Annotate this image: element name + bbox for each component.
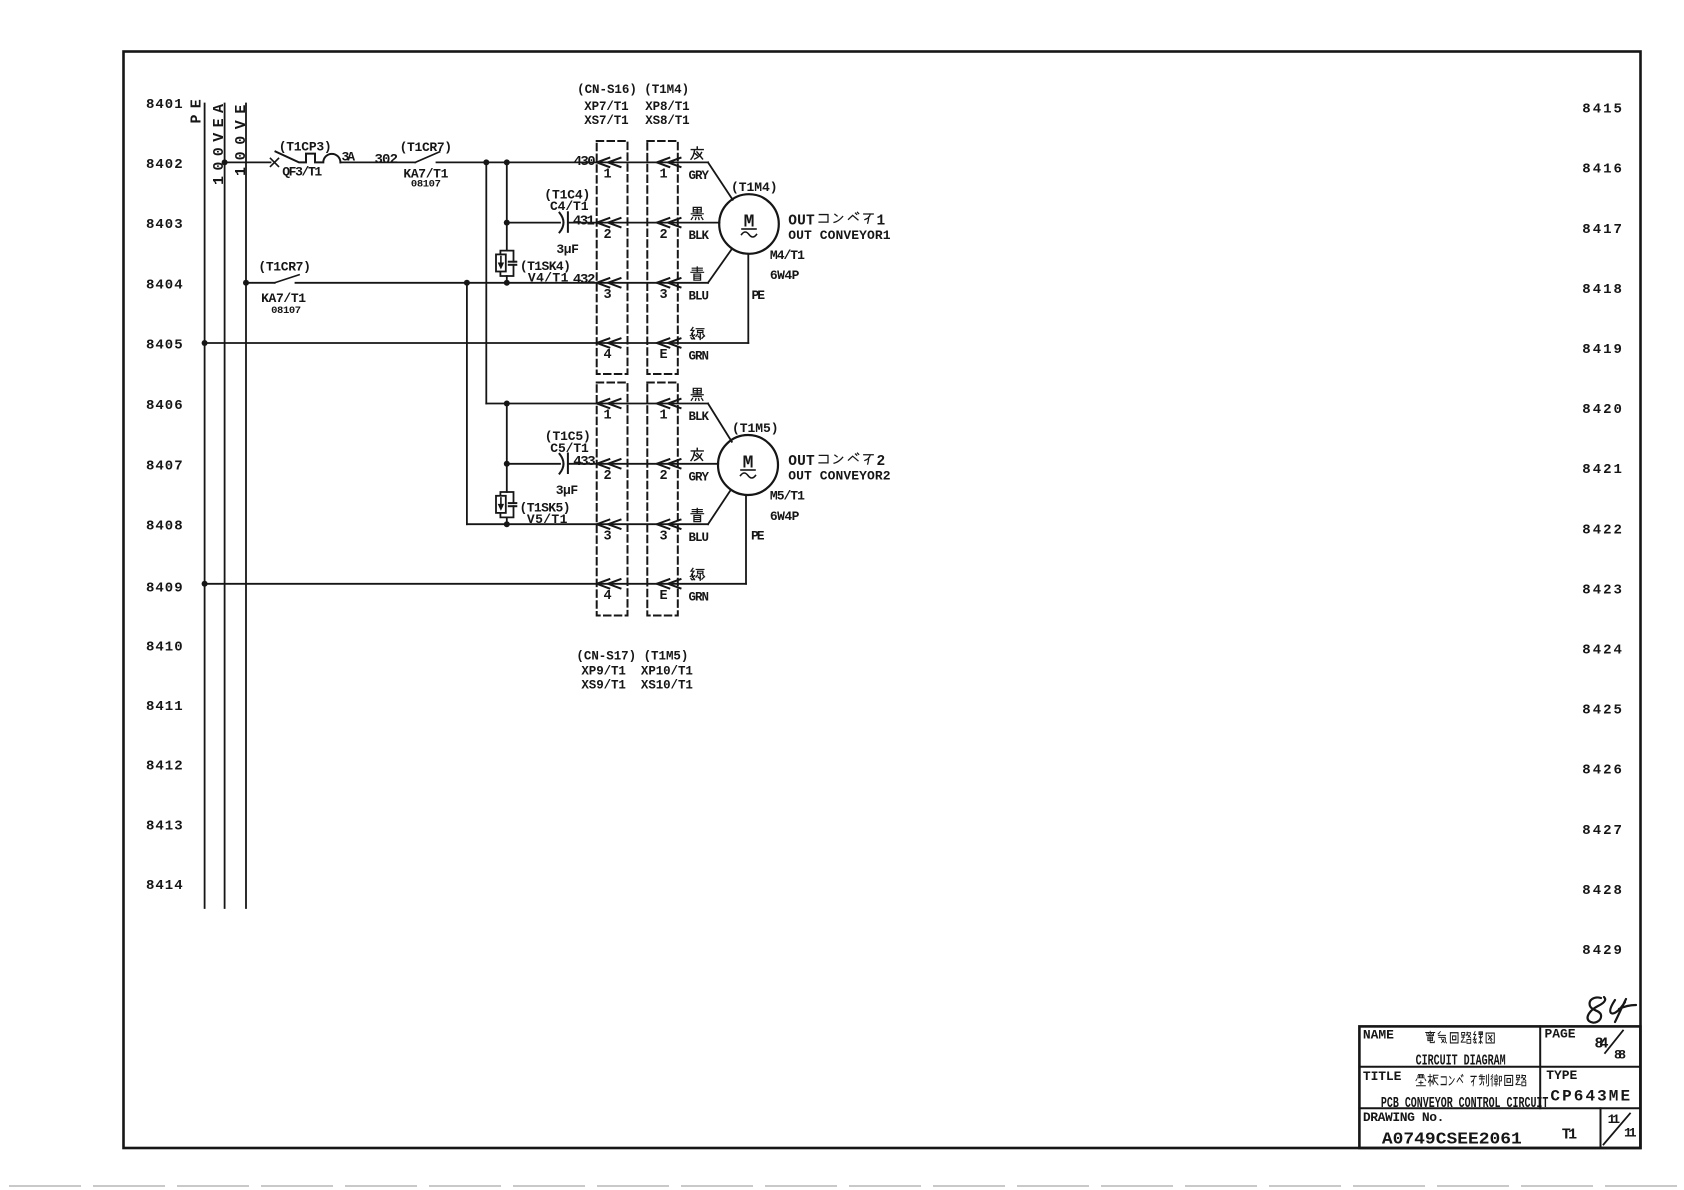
svg-text:GRN: GRN — [689, 590, 710, 604]
wire PE riser to motor M5 — [745, 495, 747, 584]
component labels row 8402 — [279, 140, 452, 191]
svg-text:8406: 8406 — [146, 398, 184, 414]
pin arrows row 8406 — [597, 399, 681, 408]
wire color labels CN-S16 — [689, 147, 710, 364]
svg-text:100VE: 100VE — [233, 98, 250, 176]
wire 302 — [340, 161, 415, 163]
junction 8404 on 100VE — [243, 280, 249, 286]
svg-text:3µF: 3µF — [556, 242, 579, 257]
connector CN-S16 socket box XP8/XS8 — [647, 141, 678, 374]
svg-text:A0749CSEE2061: A0749CSEE2061 — [1382, 1129, 1522, 1148]
svg-text:1: 1 — [877, 213, 886, 229]
node x-mark at breaker input — [271, 158, 279, 166]
svg-text:8409: 8409 — [146, 581, 184, 597]
svg-text:CIRCUIT DIAGRAM: CIRCUIT DIAGRAM — [1416, 1052, 1506, 1069]
connector pin numbers CN-S16 — [603, 168, 667, 364]
pin arrows row 8408 — [597, 520, 681, 529]
wire 431 to connector — [568, 222, 720, 224]
svg-text:C4/T1: C4/T1 — [550, 199, 589, 214]
title block texts — [1363, 1027, 1637, 1149]
relay contact KA7/T1 (T1CR7) row 8404 — [275, 275, 299, 283]
svg-text:432: 432 — [573, 272, 596, 288]
svg-text:XS7/T1: XS7/T1 — [584, 114, 629, 128]
svg-text:XS10/T1: XS10/T1 — [641, 678, 693, 692]
junction 8402 on 100VEA — [222, 159, 228, 165]
svg-text:(T1CR7): (T1CR7) — [400, 140, 453, 155]
motor M5 name OUTコンベア2 — [788, 453, 890, 483]
junction 8405 on PE — [202, 340, 208, 346]
capacitor C5 labels — [545, 429, 596, 498]
wire 432 row 8404 to connector — [296, 282, 709, 284]
motor M5/T1 (T1M5) OUT CONVEYOR2 — [718, 421, 805, 544]
svg-text:GRY: GRY — [689, 169, 710, 183]
svg-text:1: 1 — [659, 409, 667, 424]
svg-text:KA7/T1: KA7/T1 — [261, 291, 306, 306]
wire SK4 to row 8404 — [506, 276, 508, 283]
svg-text:BLK: BLK — [689, 410, 710, 424]
capacitor C4 labels — [544, 188, 595, 257]
svg-text:8429: 8429 — [1582, 943, 1624, 959]
wire row 8404 from 100VE to contact — [246, 282, 275, 284]
svg-text:8414: 8414 — [146, 878, 184, 894]
svg-text:XP7/T1: XP7/T1 — [584, 100, 629, 114]
svg-text:8410: 8410 — [146, 639, 184, 655]
svg-text:8411: 8411 — [146, 699, 184, 715]
junction 8404/branch467 — [464, 280, 470, 286]
svg-text:431: 431 — [573, 213, 595, 229]
svg-text:8405: 8405 — [146, 338, 184, 354]
junction 8403 — [504, 220, 510, 226]
svg-text:8408: 8408 — [146, 519, 184, 535]
svg-text:88: 88 — [1614, 1047, 1626, 1062]
svg-text:84: 84 — [1595, 1035, 1609, 1052]
svg-text:8425: 8425 — [1582, 703, 1624, 719]
svg-text:100VEA: 100VEA — [211, 99, 228, 185]
svg-text:(T1CR7): (T1CR7) — [258, 259, 311, 274]
svg-text:XP8/T1: XP8/T1 — [645, 100, 690, 114]
svg-text:XP9/T1: XP9/T1 — [581, 664, 626, 678]
pin arrows row 8404 — [597, 278, 681, 287]
motor M4 name OUTコンベア1 — [788, 212, 890, 243]
svg-text:(CN-S16) (T1M4): (CN-S16) (T1M4) — [577, 83, 689, 97]
vertical wire 8402 to 8403/SK4 — [506, 162, 508, 250]
svg-text:8407: 8407 — [146, 458, 184, 474]
svg-text:8404: 8404 — [146, 277, 184, 293]
vertical wire 8406 to 8407/SK5 — [506, 404, 508, 493]
pin arrows row 8402 — [597, 158, 681, 167]
svg-text:M4/T1: M4/T1 — [770, 248, 805, 263]
wire row 8408 to connector — [467, 523, 708, 525]
svg-text:8403: 8403 — [146, 217, 184, 233]
svg-text:8422: 8422 — [1582, 522, 1624, 538]
surge killer SK4 labels — [520, 259, 596, 288]
line number labels right column — [1582, 102, 1624, 959]
wire row 8406 to connector — [486, 403, 708, 405]
svg-text:302: 302 — [375, 152, 399, 168]
svg-text:8415: 8415 — [1582, 102, 1624, 118]
svg-text:CP643ME: CP643ME — [1550, 1088, 1630, 1106]
svg-text:8419: 8419 — [1582, 342, 1624, 358]
wire PE riser to motor M4 — [747, 254, 749, 343]
svg-text:2: 2 — [603, 469, 611, 484]
surge killer SK5 labels — [520, 501, 571, 527]
svg-text:8402: 8402 — [146, 157, 184, 173]
wire row 8402 from 100VEA to breaker — [225, 161, 271, 163]
junction 8404/SK4 — [504, 280, 510, 286]
wire row 8409 PE to connector — [205, 583, 746, 585]
svg-text:TYPE: TYPE — [1546, 1068, 1577, 1083]
wire 433 to connector — [568, 463, 718, 465]
svg-text:E: E — [659, 348, 667, 363]
svg-text:BLU: BLU — [689, 531, 710, 545]
wire 430 row 8402 to connector — [437, 161, 709, 163]
svg-text:8421: 8421 — [1582, 462, 1624, 478]
svg-text:8420: 8420 — [1582, 402, 1624, 418]
svg-text:(T1CP3): (T1CP3) — [279, 140, 332, 155]
vertical branch wire 8404 to 8408 — [466, 283, 468, 524]
connector contact arrows (plug/socket chevrons), pins 1-4/E rows — [597, 158, 681, 589]
wire diagonal to motor M4 pin3 — [708, 249, 732, 283]
connector CN-S16 header labels — [577, 83, 690, 128]
svg-text:QF3/T1: QF3/T1 — [282, 165, 322, 180]
connector CN-S17 plug box XP9/XS9 — [597, 383, 628, 616]
svg-text:GRY: GRY — [689, 470, 710, 484]
line number labels left column — [146, 97, 184, 894]
svg-text:DRAWING No.: DRAWING No. — [1363, 1110, 1445, 1125]
title block — [1359, 1026, 1640, 1148]
wire diagonal to motor M5 pin3 — [708, 490, 731, 524]
pin arrows row 8407 — [597, 459, 681, 468]
connector CN-S17 header labels — [576, 649, 693, 692]
svg-text:PE: PE — [751, 529, 765, 544]
svg-text:T1: T1 — [1562, 1126, 1578, 1143]
svg-text:8428: 8428 — [1582, 883, 1624, 899]
svg-text:08107: 08107 — [271, 305, 301, 317]
svg-text:3: 3 — [603, 529, 611, 544]
vertical branch wire 8402 to 8406 — [485, 162, 487, 403]
wire diagonal to motor M4 pin1 — [708, 162, 733, 199]
wire row 8403 capacitor branch — [507, 222, 560, 224]
svg-text:XS8/T1: XS8/T1 — [645, 114, 690, 128]
junction 8409 on PE — [202, 581, 208, 587]
svg-text:(T1M4): (T1M4) — [731, 180, 778, 195]
surge killer T1SK5 V5/T1 — [496, 492, 516, 517]
connector CN-S16 plug box XP7/XS7 — [597, 141, 628, 374]
net 100VEA rail — [224, 104, 226, 909]
net PE rail — [204, 104, 206, 909]
relay contact KA7/T1 (T1CR7) row 8402 — [415, 152, 439, 163]
svg-text:3A: 3A — [342, 149, 356, 164]
svg-text:XP10/T1: XP10/T1 — [641, 664, 693, 678]
svg-text:2: 2 — [659, 469, 667, 484]
junction 8402/branch2 — [504, 159, 510, 165]
wire row 8405 PE to connector — [205, 342, 749, 344]
svg-text:4: 4 — [603, 348, 611, 363]
svg-text:1: 1 — [603, 409, 611, 424]
svg-text:PE: PE — [189, 93, 206, 123]
svg-text:PAGE: PAGE — [1545, 1027, 1576, 1042]
svg-text:PE: PE — [752, 288, 766, 303]
svg-text:08107: 08107 — [411, 179, 441, 191]
connector pin numbers CN-S17 — [603, 409, 667, 604]
junction 8406 — [504, 401, 510, 407]
svg-text:8423: 8423 — [1582, 582, 1624, 598]
surge killer T1SK4 V4/T1 — [496, 251, 516, 276]
wire row 8407 capacitor branch — [507, 463, 560, 465]
svg-text:(T1M5): (T1M5) — [732, 421, 779, 436]
svg-text:1: 1 — [603, 168, 611, 183]
motor M4/T1 (T1M4) OUT CONVEYOR1 — [719, 180, 805, 303]
svg-text:3µF: 3µF — [556, 483, 579, 498]
wire diagonal to motor M5 pin1 — [708, 404, 732, 442]
svg-text:11: 11 — [1624, 1125, 1637, 1140]
svg-text:2: 2 — [603, 228, 611, 243]
svg-text:8424: 8424 — [1582, 643, 1624, 659]
net 100VE rail — [245, 104, 247, 909]
svg-text:OUT CONVEYOR1: OUT CONVEYOR1 — [788, 228, 890, 243]
svg-text:(CN-S17) (T1M5): (CN-S17) (T1M5) — [576, 649, 688, 663]
junction 8402/branch1 — [483, 159, 489, 165]
handwritten page number 84 — [1588, 997, 1636, 1023]
svg-text:8427: 8427 — [1582, 823, 1624, 839]
junction 8408 — [504, 521, 510, 527]
svg-text:8417: 8417 — [1582, 222, 1624, 238]
svg-text:OUT CONVEYOR2: OUT CONVEYOR2 — [788, 468, 890, 483]
svg-text:M5/T1: M5/T1 — [770, 489, 805, 504]
svg-text:OUT: OUT — [788, 213, 815, 229]
svg-text:3: 3 — [659, 288, 667, 303]
scan edge artifact bottom — [10, 1185, 1684, 1187]
svg-text:V4/T1: V4/T1 — [528, 270, 569, 285]
svg-text:TITLE: TITLE — [1363, 1069, 1402, 1084]
svg-text:3: 3 — [659, 529, 667, 544]
svg-text:3: 3 — [603, 288, 611, 303]
svg-text:NAME: NAME — [1363, 1028, 1394, 1043]
svg-text:8416: 8416 — [1582, 162, 1624, 178]
svg-text:2: 2 — [659, 228, 667, 243]
svg-text:XS9/T1: XS9/T1 — [581, 678, 626, 692]
svg-text:GRN: GRN — [689, 350, 710, 364]
svg-text:8426: 8426 — [1582, 763, 1624, 779]
svg-text:V5/T1: V5/T1 — [527, 512, 568, 527]
wire SK5 to row 8408 — [506, 517, 508, 524]
junction 8407 — [504, 461, 510, 467]
svg-text:433: 433 — [573, 454, 596, 470]
pin arrows row 8409 — [597, 579, 681, 588]
svg-text:1: 1 — [659, 168, 667, 183]
svg-text:8413: 8413 — [146, 818, 184, 834]
svg-text:6W4P: 6W4P — [770, 268, 800, 283]
circuit breaker QF3/T1 (T1CP3) 3A — [276, 152, 341, 163]
svg-text:430: 430 — [574, 154, 596, 170]
svg-text:4: 4 — [603, 589, 611, 604]
pin arrows row 8403 — [597, 218, 681, 227]
svg-text:11: 11 — [1608, 1112, 1621, 1127]
connector CN-S17 socket box XP10/XS10 — [647, 383, 678, 616]
capacitor C5/T1 (T1C5) 3uF — [560, 454, 564, 474]
wire color labels CN-S17 — [689, 388, 710, 604]
svg-text:8401: 8401 — [146, 97, 184, 113]
capacitor C4/T1 (T1C4) 3uF — [560, 213, 564, 233]
pin arrows row 8405 — [597, 338, 681, 347]
svg-text:8418: 8418 — [1582, 282, 1624, 298]
component labels row 8404 — [258, 259, 311, 317]
svg-text:E: E — [659, 589, 667, 604]
svg-text:6W4P: 6W4P — [770, 509, 800, 524]
svg-text:BLK: BLK — [689, 229, 710, 243]
svg-text:8412: 8412 — [146, 759, 184, 775]
svg-text:BLU: BLU — [689, 289, 710, 303]
